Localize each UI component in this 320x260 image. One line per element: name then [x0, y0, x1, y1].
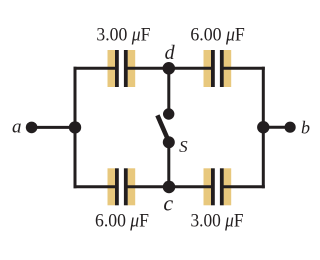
- wire: switch lower contact to node c: [167, 142, 170, 187]
- wire: bottom branch middle segment: [125, 185, 215, 188]
- capacitor C1 plate dielectric pads (3.00 uF top-left): [108, 50, 136, 87]
- wire: stub from terminal a: [32, 126, 76, 129]
- capacitor C3 plate dielectric pads (6.00 uF bottom-left): [108, 168, 136, 205]
- junction dot right rail: [257, 121, 269, 133]
- svg-text:6.00 μF: 6.00 μF: [95, 211, 149, 232]
- terminal a dot: [26, 122, 38, 134]
- switch S lower contact dot: [163, 136, 175, 148]
- wire: bottom branch right segment: [221, 185, 265, 188]
- wire: top branch left segment: [74, 67, 119, 70]
- capacitor C3 plates: [115, 168, 128, 205]
- svg-text:d: d: [165, 42, 176, 64]
- svg-text:c: c: [163, 191, 173, 216]
- svg-text:b: b: [301, 117, 310, 137]
- junction dot left rail: [69, 121, 81, 133]
- switch S upper contact dot: [163, 108, 174, 119]
- node c dot: [163, 181, 176, 194]
- svg-text:3.00 μF: 3.00 μF: [96, 25, 150, 46]
- capacitor C4 plate dielectric pads (3.00 uF bottom-right): [204, 168, 232, 205]
- wire: left rail: [74, 67, 77, 189]
- svg-text:3.00 μF: 3.00 μF: [191, 211, 244, 232]
- capacitor C2 plates: [211, 50, 224, 87]
- svg-text:S: S: [179, 137, 188, 156]
- terminal b dot: [285, 122, 296, 133]
- capacitor C4 plates: [211, 168, 224, 205]
- node d dot: [163, 62, 176, 75]
- capacitor C2 plate dielectric pads (6.00 uF top-right): [204, 50, 232, 87]
- wire: top branch middle segment: [125, 67, 215, 70]
- switch S blade: [157, 115, 168, 141]
- svg-text:a: a: [12, 116, 22, 137]
- wire: right rail: [262, 67, 265, 189]
- capacitor C1 plates: [115, 50, 128, 87]
- wire: node d to switch upper contact: [167, 68, 170, 114]
- svg-text:6.00 μF: 6.00 μF: [190, 25, 244, 46]
- wire: bottom branch left segment: [74, 185, 119, 188]
- wire: top branch right segment: [221, 67, 265, 70]
- wire: stub to terminal b: [262, 126, 290, 129]
